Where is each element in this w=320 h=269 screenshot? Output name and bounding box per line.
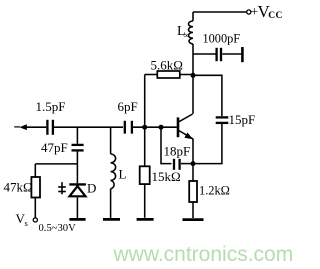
resistor R 47k (31, 164, 40, 218)
varactor capacitance mark (58, 182, 66, 194)
label 15k (152, 169, 181, 184)
ground (1.2k) (183, 218, 204, 221)
label L-inf (177, 24, 190, 40)
node junction bias/main (142, 125, 147, 130)
label 1.5pF (36, 99, 66, 114)
label D (87, 181, 96, 196)
label 0.5~30V (39, 223, 77, 234)
wire feedback 15pF top link (193, 75, 222, 116)
label 1000pF (203, 32, 241, 46)
wire main segment 3 (to base) (133, 126, 177, 128)
svg-text:1.2kΩ: 1.2kΩ (199, 184, 230, 198)
label +Vcc (251, 2, 283, 21)
svg-text:1000pF: 1000pF (203, 32, 241, 46)
label Vs (16, 211, 28, 228)
wire bias column x=145 (144, 75, 146, 167)
watermark www.cntronics.com (113, 243, 294, 266)
svg-text:6pF: 6pF (118, 99, 138, 114)
node junction emitter/18pF/15pF (191, 161, 196, 166)
wire 47k link (35, 163, 77, 165)
transistor Q1 (178, 114, 193, 139)
wire collector column (192, 44, 194, 114)
capacitor C 1.5pF (47, 120, 53, 135)
svg-text:www.cntronics.com: www.cntronics.com (113, 243, 294, 266)
capacitor C 15pF (216, 117, 229, 123)
wire Vcc top rail (193, 11, 247, 13)
node junction collector/5.6k (191, 73, 196, 78)
ground (L) (103, 218, 120, 221)
resistor R 5.6k (145, 71, 193, 78)
resistor R 15k (140, 166, 150, 218)
label 6pF (118, 99, 138, 114)
node junction 18pF branch (159, 125, 164, 130)
wire 47pF branch (76, 127, 78, 144)
svg-text:47pF: 47pF (41, 140, 68, 155)
label 1.2k (199, 184, 230, 198)
wire diode column (76, 152, 78, 184)
label L (119, 167, 127, 182)
svg-text:15pF: 15pF (229, 112, 256, 127)
wire emitter column (192, 139, 194, 182)
svg-text:1.5pF: 1.5pF (36, 99, 66, 114)
svg-text:s: s (25, 218, 28, 228)
terminal Vs (33, 218, 37, 222)
wire diode to ground (76, 198, 78, 219)
capacitor C 1000pF (193, 48, 241, 61)
label 15pF (229, 112, 256, 127)
wire L to ground (110, 189, 112, 218)
svg-text:D: D (87, 181, 96, 196)
wire 18pF to emitter node (181, 163, 193, 165)
label 18pF (164, 144, 191, 159)
wire main segment 2 (54, 126, 123, 128)
capacitor C 18pF (174, 159, 180, 170)
label 5.6k (151, 58, 183, 73)
label 47k (4, 180, 33, 195)
wire main input segment 1 (25, 126, 46, 128)
ground (15k) (137, 218, 154, 221)
svg-text:18pF: 18pF (164, 144, 191, 159)
transistor emitter arrow (184, 133, 193, 140)
terminal +Vcc (247, 10, 251, 14)
wire feedback 15pF bottom link (193, 124, 222, 164)
wire 18pF branch down (161, 127, 172, 163)
svg-text:0.5~30V: 0.5~30V (39, 223, 77, 234)
capacitor C 47pF (72, 145, 84, 151)
resistor R 1.2k (189, 181, 197, 218)
svg-text:CC: CC (268, 11, 283, 21)
output arrow terminal (14, 124, 27, 130)
ground (diode) (69, 218, 85, 221)
svg-text:∞: ∞ (184, 30, 190, 40)
svg-text:L: L (119, 167, 127, 182)
diode D (varactor) (69, 184, 86, 196)
svg-text:15kΩ: 15kΩ (152, 169, 181, 184)
inductor L-inf (189, 12, 194, 44)
svg-text:47kΩ: 47kΩ (4, 180, 33, 195)
wire L branch (110, 127, 112, 154)
inductor L (111, 154, 116, 189)
capacitor C 6pF (125, 121, 132, 134)
terminal end bar of 1000pF (241, 47, 244, 62)
label 47pF (41, 140, 68, 155)
svg-text:5.6kΩ: 5.6kΩ (151, 58, 183, 73)
